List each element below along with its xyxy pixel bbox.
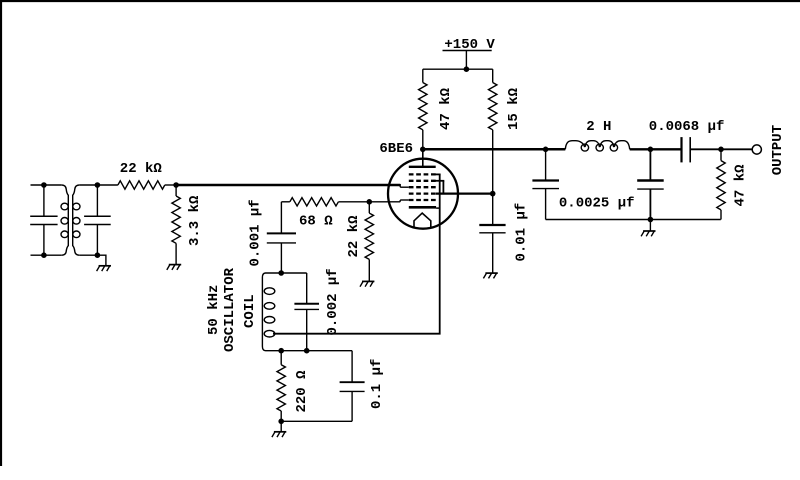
capacitor C4 0.002 µf	[294, 273, 319, 351]
svg-text:47 kΩ: 47 kΩ	[733, 164, 749, 207]
ground (R2)	[167, 265, 181, 270]
capacitor C9 0.0068 µf (coupling)	[682, 137, 691, 162]
node: signal grid line	[173, 182, 179, 188]
svg-text:15 kΩ: 15 kΩ	[506, 87, 522, 130]
capacitor C7 0.0025 µf (left)	[532, 149, 559, 219]
ground (transformer secondary)	[97, 266, 111, 271]
V1 plate	[409, 149, 436, 167]
V1 cathode	[409, 206, 441, 210]
wire: supply rail to resistors	[423, 69, 493, 82]
wire: filter ground stem	[649, 220, 651, 232]
svg-text:2 H: 2 H	[586, 119, 611, 135]
svg-text:OSCILLATOR: OSCILLATOR	[222, 267, 238, 352]
svg-text:47 kΩ: 47 kΩ	[438, 87, 454, 130]
capacitor C3 0.001 µf	[267, 202, 296, 273]
wire: L2 to C8 node	[630, 148, 681, 150]
capacitor C2 (secondary tuning)	[84, 185, 111, 255]
wire: screen line	[436, 192, 493, 194]
supply rail +150 V	[443, 51, 492, 70]
wire: input top stub	[31, 184, 62, 186]
ground (filter)	[641, 231, 655, 236]
transformer T1 primary winding	[61, 185, 68, 255]
node: grid 1	[367, 199, 373, 205]
svg-text:OUTPUT: OUTPUT	[770, 125, 786, 175]
capacitor C5 0.1 µf	[281, 351, 364, 422]
svg-text:0.002 µf: 0.002 µf	[325, 268, 341, 335]
node: filter mid	[648, 147, 654, 153]
V1 grid 2 (row 4, screen)	[409, 192, 437, 194]
wire: R1 to node	[165, 184, 176, 186]
svg-text:22 kΩ: 22 kΩ	[120, 161, 163, 177]
wire: input bottom stub	[31, 254, 62, 256]
V1 heater	[414, 213, 431, 228]
svg-text:50 kHz: 50 kHz	[206, 285, 222, 335]
resistor R4 22 kΩ (grid leak)	[365, 202, 373, 282]
node: plate	[420, 147, 426, 153]
node: coil bottom left	[278, 348, 284, 354]
tube V1 6BE6 envelope	[388, 159, 458, 229]
wire: screen grids tie	[442, 181, 444, 194]
capacitor C8 0.0025 µf (right)	[637, 149, 664, 219]
resistor R1 22 kΩ	[118, 181, 165, 189]
wire: R5 bottom to ground	[280, 421, 282, 432]
transformer T1 secondary winding	[73, 185, 80, 255]
resistor R5 220 Ω	[277, 351, 285, 422]
node: screen bypass	[490, 191, 496, 197]
resistor R7 15 kΩ (screen)	[489, 83, 497, 194]
svg-text:COIL: COIL	[242, 294, 258, 328]
ground (R5)	[272, 432, 286, 437]
node: primary top	[41, 182, 47, 188]
wire: filter bottom	[546, 219, 721, 221]
label 50 kHz OSCILLATOR COIL	[206, 267, 258, 352]
wire: grid 1 lead	[338, 200, 408, 202]
node: coil top / C3	[278, 270, 284, 276]
wire: C9 to output terminal	[691, 148, 752, 150]
node: supply	[464, 66, 470, 72]
output terminal	[752, 145, 761, 154]
svg-text:3.3 kΩ: 3.3 kΩ	[187, 195, 203, 246]
svg-text:0.0025 µf: 0.0025 µf	[559, 196, 635, 212]
resistor R2 3.3 kΩ	[172, 185, 180, 265]
V1 grid 3 (row 3, signal)	[409, 186, 437, 188]
inductor L1 50 kHz oscillator coil	[262, 273, 352, 351]
wire: coil tap to cathode/g5 of V1	[273, 174, 440, 333]
ground (C6)	[483, 273, 497, 278]
node: secondary bottom	[95, 252, 101, 258]
resistor R8 47 kΩ (output load)	[717, 149, 725, 219]
node: secondary top	[95, 182, 101, 188]
node: filter input	[543, 147, 549, 153]
wire: plate line to filter	[423, 148, 566, 151]
svg-text:220 Ω: 220 Ω	[294, 370, 310, 413]
V1 grid 1 (row 5, oscillator)	[409, 199, 437, 201]
svg-text:0.1 µf: 0.1 µf	[369, 359, 385, 409]
capacitor C6 0.01 µf (screen bypass)	[479, 194, 505, 274]
V1 grid 5 (row 1)	[409, 173, 441, 175]
node: filter ground	[648, 217, 654, 223]
resistor R6 47 kΩ (plate load)	[419, 83, 427, 150]
wire: signal line to grid 3 of V1	[176, 184, 409, 187]
wire: secondary top to R1	[79, 184, 118, 186]
svg-text:0.0068 µf: 0.0068 µf	[649, 119, 725, 135]
svg-text:0.01 µf: 0.01 µf	[514, 203, 530, 262]
wire: secondary bottom to ground	[79, 255, 106, 266]
V1 grid 4 (row 2, screen)	[409, 180, 445, 182]
svg-text:6BE6: 6BE6	[379, 141, 413, 157]
node: coil bottom / C4	[304, 348, 310, 354]
svg-text:0.001 µf: 0.001 µf	[247, 199, 263, 266]
svg-text:68 Ω: 68 Ω	[299, 213, 333, 229]
ground (R4)	[360, 281, 374, 286]
capacitor C1 (primary tuning)	[30, 185, 57, 255]
node: output	[718, 147, 724, 153]
node: primary bottom	[41, 252, 47, 258]
svg-text:22 kΩ: 22 kΩ	[346, 215, 362, 258]
inductor L2 2 H	[565, 141, 629, 151]
node: R5 / C5 bottom	[278, 419, 284, 425]
resistor R3 68 Ω	[281, 198, 338, 206]
